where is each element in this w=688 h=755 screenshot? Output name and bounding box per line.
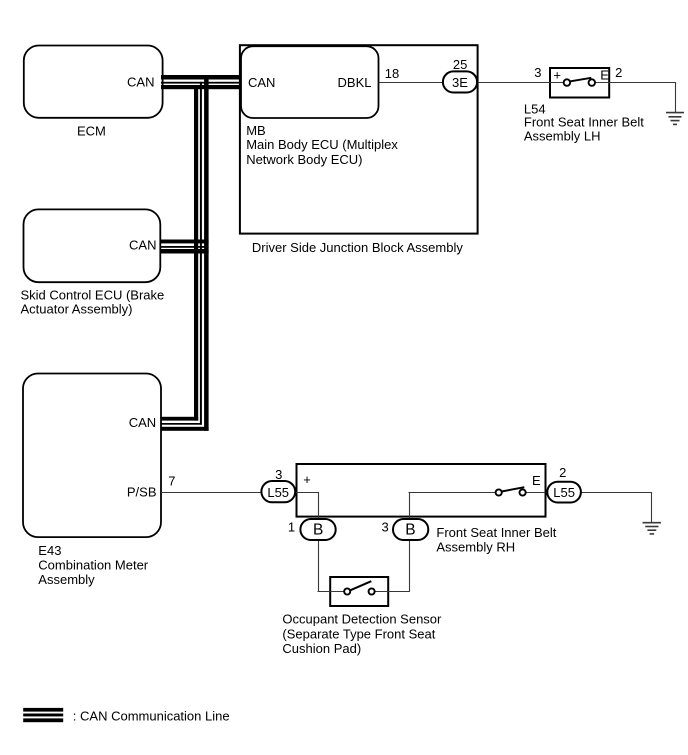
- svg-text:Occupant Detection Sensor: Occupant Detection Sensor: [282, 612, 442, 627]
- svg-text:MB: MB: [246, 123, 266, 138]
- svg-text:(Separate Type Front Seat: (Separate Type Front Seat: [282, 626, 435, 641]
- svg-text:CAN: CAN: [129, 415, 156, 430]
- svg-text:P/SB: P/SB: [127, 485, 157, 500]
- svg-text:3: 3: [275, 467, 282, 482]
- svg-text:18: 18: [385, 66, 399, 81]
- svg-text:Front Seat Inner Belt: Front Seat Inner Belt: [436, 525, 556, 540]
- svg-text:Network Body ECU): Network Body ECU): [246, 152, 362, 167]
- svg-text:B: B: [405, 522, 415, 539]
- svg-text:2: 2: [559, 465, 566, 480]
- svg-text:Driver Side Junction Block Ass: Driver Side Junction Block Assembly: [252, 240, 463, 255]
- svg-text:E: E: [600, 68, 609, 83]
- svg-text:L55: L55: [553, 485, 575, 500]
- svg-text:CAN: CAN: [248, 75, 275, 90]
- svg-text:Combination Meter: Combination Meter: [38, 558, 148, 573]
- svg-text:7: 7: [168, 473, 175, 488]
- svg-text:Assembly: Assembly: [38, 572, 95, 587]
- svg-text:Assembly RH: Assembly RH: [436, 539, 515, 554]
- svg-text:CAN: CAN: [127, 75, 154, 90]
- svg-text:+: +: [303, 472, 311, 487]
- svg-text:E: E: [532, 473, 541, 488]
- svg-text:ECM: ECM: [77, 123, 106, 138]
- svg-text:+: +: [553, 67, 561, 82]
- svg-text:Main Body ECU (Multiplex: Main Body ECU (Multiplex: [246, 137, 398, 152]
- svg-text:CAN: CAN: [129, 238, 156, 253]
- svg-text:: CAN Communication Line: : CAN Communication Line: [73, 708, 230, 723]
- svg-text:25: 25: [453, 57, 467, 72]
- svg-text:Assembly LH: Assembly LH: [524, 128, 601, 143]
- svg-text:E43: E43: [38, 543, 61, 558]
- svg-text:3E: 3E: [452, 75, 468, 90]
- svg-text:B: B: [313, 522, 323, 539]
- svg-text:L55: L55: [267, 485, 289, 500]
- svg-text:3: 3: [382, 520, 389, 535]
- svg-text:Cushion Pad): Cushion Pad): [282, 641, 361, 656]
- svg-text:3: 3: [534, 65, 541, 80]
- svg-text:Skid Control ECU (Brake: Skid Control ECU (Brake: [21, 287, 165, 302]
- svg-text:Actuator Assembly): Actuator Assembly): [21, 302, 133, 317]
- svg-text:DBKL: DBKL: [338, 75, 372, 90]
- svg-text:1: 1: [288, 520, 295, 535]
- svg-text:2: 2: [615, 65, 622, 80]
